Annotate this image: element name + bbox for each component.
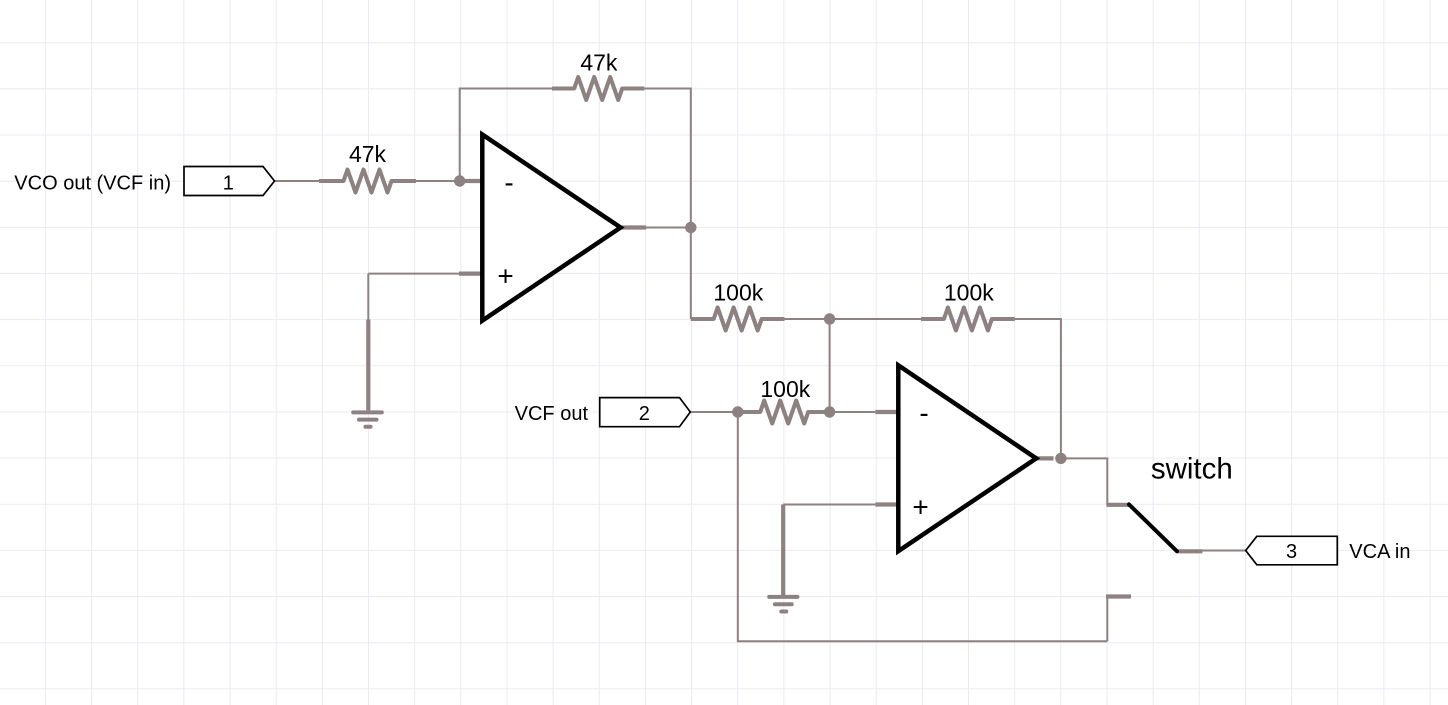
svg-text:100k: 100k: [944, 280, 994, 306]
svg-text:VCO out (VCF in): VCO out (VCF in): [14, 173, 171, 195]
svg-text:3: 3: [1286, 541, 1297, 563]
svg-text:-: -: [919, 398, 928, 429]
svg-text:1: 1: [223, 173, 234, 195]
svg-text:-: -: [504, 167, 513, 198]
svg-text:VCA in: VCA in: [1349, 541, 1410, 563]
svg-text:47k: 47k: [580, 50, 618, 76]
svg-text:100k: 100k: [760, 376, 810, 402]
svg-text:47k: 47k: [349, 141, 387, 167]
svg-text:switch: switch: [1151, 453, 1233, 486]
svg-text:+: +: [912, 492, 928, 523]
svg-text:2: 2: [639, 403, 650, 425]
svg-text:100k: 100k: [713, 280, 763, 306]
svg-text:+: +: [497, 261, 513, 292]
svg-text:VCF out: VCF out: [515, 403, 589, 425]
